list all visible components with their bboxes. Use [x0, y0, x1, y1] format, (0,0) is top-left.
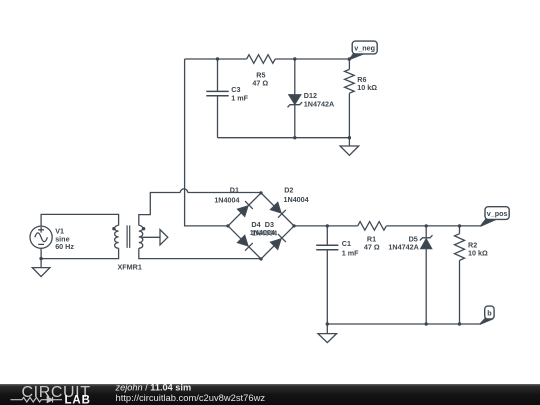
ground (V1) — [32, 259, 50, 277]
resistor R5 — [247, 55, 276, 64]
svg-text:47 Ω: 47 Ω — [364, 243, 380, 252]
node: bridge bottom vertex — [259, 257, 262, 260]
zener diode D12 — [288, 59, 303, 138]
ground (top circuit) — [340, 138, 359, 156]
diode D4 — [238, 236, 253, 251]
junction: D5 bottom rail — [425, 322, 428, 325]
wire: secondary bottom to bridge bottom vertex — [139, 248, 261, 259]
wire: V1 top to transformer primary — [41, 214, 119, 226]
svg-text:D2: D2 — [284, 186, 293, 195]
junction: C3 top on v_neg rail — [216, 57, 219, 60]
CircuitLab logo line art (wire resistor diode) — [11, 397, 63, 403]
wire: top circuit bottom rail — [218, 137, 350, 139]
resistor R6 — [345, 59, 355, 138]
wire: v_neg top rail — [185, 58, 350, 60]
footer title: zejohn / 11.04 sim — [115, 382, 192, 392]
capacitor C1 — [316, 226, 338, 324]
node: bridge right vertex — [292, 224, 295, 227]
svg-text:XFMR1: XFMR1 — [118, 263, 142, 272]
svg-text:1N4004: 1N4004 — [214, 195, 239, 204]
wire: bottom rail of output section — [327, 323, 480, 325]
junction: R2 bottom rail — [458, 322, 461, 325]
CircuitLab logo text LAB — [65, 395, 91, 405]
node v_neg junction — [348, 57, 351, 60]
transformer secondary arrow symbol — [142, 230, 168, 245]
svg-text:60 Hz: 60 Hz — [55, 242, 74, 251]
svg-text:1N4742A: 1N4742A — [388, 243, 418, 252]
svg-text:10 kΩ: 10 kΩ — [357, 83, 377, 92]
svg-text:1N4742A: 1N4742A — [304, 99, 334, 108]
CircuitLab logo text CIRCUIT — [22, 384, 91, 401]
svg-text:1N4004: 1N4004 — [284, 195, 309, 204]
diode D2 — [271, 203, 286, 218]
node: bridge left vertex — [226, 224, 229, 227]
transformer polarity dot (primary) — [112, 227, 115, 230]
junction: D12 bottom rail — [293, 136, 296, 139]
svg-text:1 mF: 1 mF — [342, 249, 359, 258]
transformer XFMR1 primary coil — [115, 225, 119, 248]
junction: C1 top on v_pos rail — [326, 224, 329, 227]
svg-text:C1: C1 — [342, 239, 351, 248]
transformer XFMR1 secondary coil — [139, 225, 143, 248]
junction: R2 top on v_pos rail — [458, 224, 461, 227]
schematic labels — [55, 44, 507, 318]
svg-text:1 mF: 1 mF — [231, 93, 248, 102]
transformer core — [127, 225, 130, 248]
svg-text:1N4004: 1N4004 — [252, 228, 277, 237]
resistor R1 — [358, 222, 387, 231]
node: bridge top vertex — [259, 191, 262, 194]
junction: V1 bottom / ground — [39, 257, 42, 260]
svg-text:b: b — [487, 309, 492, 318]
ground (output section) — [318, 324, 337, 343]
voltage source V1 — [30, 226, 52, 248]
svg-text:v_neg: v_neg — [354, 44, 375, 53]
junction: D5 top on v_pos rail — [425, 224, 428, 227]
svg-text:zejohn / 11.04 sim: zejohn / 11.04 sim — [115, 382, 192, 392]
zener diode D5 — [420, 226, 433, 324]
diode D1 — [238, 201, 253, 216]
net flag v_pos — [481, 207, 510, 227]
footer url — [116, 392, 266, 403]
junction: D12 top on v_neg rail — [293, 57, 296, 60]
diode D3 — [271, 234, 286, 249]
junction: R6 bottom / ground — [348, 136, 351, 139]
svg-text:47 Ω: 47 Ω — [252, 79, 268, 88]
wire: long vertical net from top circuit to bridge left vertex — [185, 59, 228, 226]
svg-text:LAB: LAB — [65, 395, 91, 405]
capacitor C3 — [206, 59, 228, 138]
wire: secondary top to bridge top vertex (with hop) — [139, 189, 261, 226]
junction: C1 bottom / ground — [326, 322, 329, 325]
resistor R2 — [455, 226, 465, 324]
wire: v_pos rail — [294, 225, 481, 227]
wire: V1 bottom rail — [41, 248, 119, 258]
net flag v_neg — [349, 41, 377, 60]
net flag b — [480, 306, 494, 324]
svg-text:v_pos: v_pos — [487, 209, 508, 218]
bridge diamond wires — [228, 193, 294, 259]
svg-text:D1: D1 — [230, 186, 239, 195]
svg-text:10 kΩ: 10 kΩ — [468, 249, 488, 258]
transformer polarity dot (secondary) — [142, 227, 145, 230]
svg-text:http://circuitlab.com/c2uv8w2s: http://circuitlab.com/c2uv8w2st76wz — [116, 392, 266, 403]
